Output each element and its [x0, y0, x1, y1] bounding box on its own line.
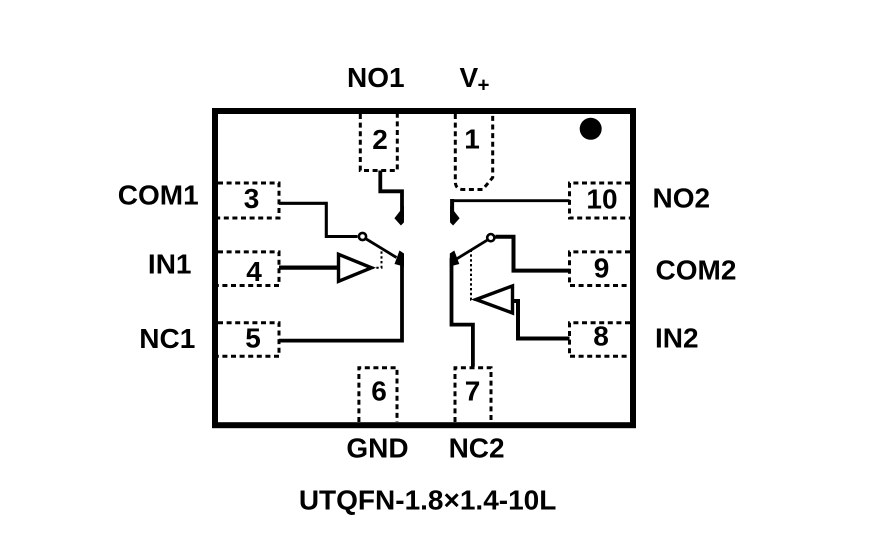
- svg-text:1: 1: [464, 124, 480, 155]
- svg-text:4: 4: [246, 256, 262, 287]
- wire IN2: pin 8 to driver: [514, 301, 570, 339]
- svg-text:NO2: NO2: [653, 182, 711, 213]
- wire NC1: pole down and to pin 5: [279, 257, 402, 341]
- svg-text:NO1: NO1: [347, 62, 405, 93]
- driver triangle U2: [476, 286, 513, 313]
- dotted control link S2: [471, 250, 476, 300]
- switch S2 blade: [457, 240, 487, 259]
- svg-text:3: 3: [244, 183, 260, 214]
- wire NO2: pin 10 to contact: [454, 199, 570, 202]
- svg-text:5: 5: [245, 323, 261, 354]
- driver triangle U1: [339, 254, 372, 281]
- switch S2 pivot circle: [487, 234, 494, 241]
- svg-text:V: V: [460, 62, 479, 93]
- switch S2 blade arrowhead: [450, 251, 460, 267]
- svg-text:GND: GND: [346, 432, 408, 463]
- svg-text:COM1: COM1: [118, 180, 199, 211]
- svg-text:6: 6: [371, 376, 387, 407]
- svg-text:10: 10: [586, 184, 617, 215]
- svg-text:UTQFN-1.8×1.4-10L: UTQFN-1.8×1.4-10L: [299, 485, 557, 516]
- svg-text:8: 8: [593, 321, 609, 352]
- dotted control link S1: [372, 250, 382, 268]
- pin 5 pad: [218, 323, 279, 357]
- package outline: [215, 111, 633, 425]
- svg-text:NC2: NC2: [449, 432, 505, 463]
- pin 10 pad: [570, 183, 631, 218]
- wire NO1: pin 2 down to contact: [380, 171, 402, 222]
- pin 7 pad: [455, 368, 491, 422]
- switch S1 pivot circle: [359, 233, 366, 240]
- svg-text:IN2: IN2: [655, 322, 699, 353]
- wire IN1: pin 4 to driver: [279, 266, 337, 270]
- svg-text:7: 7: [465, 376, 481, 407]
- pin 6 pad: [359, 368, 397, 422]
- pin 3 pad: [218, 183, 279, 218]
- svg-text:2: 2: [372, 124, 388, 155]
- pin 1 pad (chamfered): [455, 114, 492, 190]
- pin 9 pad: [570, 252, 631, 286]
- pin 2 pad: [360, 114, 397, 171]
- svg-text:+: +: [478, 74, 490, 97]
- svg-text:IN1: IN1: [148, 249, 192, 280]
- contact NO2 arrowhead: [450, 206, 460, 226]
- wire COM2: switch pivot to pin 9: [496, 237, 570, 271]
- pin 8 pad: [570, 323, 631, 357]
- svg-text:NC1: NC1: [139, 323, 195, 354]
- svg-text:COM2: COM2: [656, 255, 737, 286]
- pin-1 indicator dot: [580, 118, 602, 140]
- switch S1 blade: [366, 239, 396, 258]
- switch S1 blade arrowhead: [395, 251, 405, 267]
- wire COM1: pin 3 to switch pivot: [279, 203, 358, 236]
- contact NO1 arrowhead: [394, 206, 404, 226]
- svg-text:9: 9: [594, 252, 610, 283]
- wire NC2: pole down to pin 7: [452, 258, 473, 367]
- pin 4 pad: [218, 252, 279, 286]
